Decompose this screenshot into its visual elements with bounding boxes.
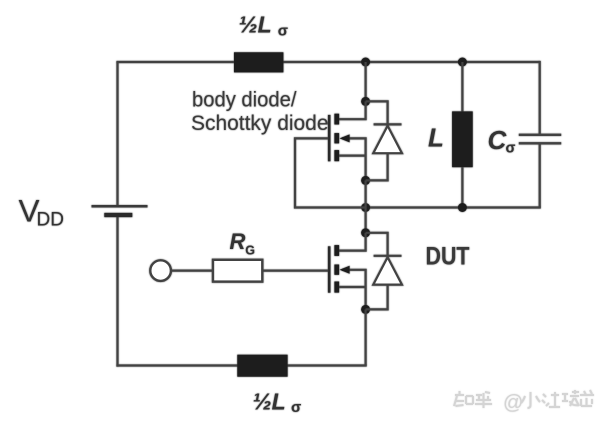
wire trunk top rail to Q1 drain (365, 62, 367, 101)
wire left vertical (battery- to bottom rail) (116, 216, 118, 367)
wire left vertical (VDD+ to top rail) (116, 62, 118, 206)
label half-L-sigma bottom (253, 389, 302, 417)
svg-text:DD: DD (37, 210, 64, 231)
wire trunk Q2 source to bottom rail (365, 309, 367, 365)
svg-text:R: R (230, 229, 246, 254)
wire trunk Q1 source to switch node to Q2 drain (365, 180, 367, 232)
wire top rail (116, 61, 539, 63)
label C-sigma (488, 125, 516, 156)
label body diode / Schottky diode (191, 89, 329, 136)
node dot Q2 source (361, 305, 370, 314)
svg-text:Schottky diode: Schottky diode (191, 112, 329, 135)
wire mid rail (switch node to right vertical) (366, 206, 541, 208)
inductor half-L-sigma top (234, 52, 283, 72)
wire L branch lower (461, 167, 463, 207)
label half-L-sigma top (239, 12, 289, 40)
node dot top rail / L branch (458, 58, 467, 67)
transistor Q2 (DUT MOSFET) (329, 233, 365, 310)
node dot Q2 drain (361, 228, 370, 237)
svg-text:σ: σ (291, 399, 301, 416)
wire RG to Q2 gate (262, 270, 328, 272)
wire Q1 gate-source tie (295, 138, 366, 207)
svg-text:σ: σ (506, 140, 516, 156)
svg-text:G: G (245, 244, 255, 258)
diode D2 (DUT body diode) (366, 233, 402, 310)
capacitor C-sigma (519, 135, 561, 144)
wire bottom rail (116, 364, 366, 366)
node dot switch node (361, 203, 370, 212)
watermark zhihu @xiaojiangtanxin (454, 390, 594, 408)
svg-text:DUT: DUT (426, 243, 470, 271)
inductor half-L-sigma bottom (237, 355, 287, 377)
transistor Q1 (high-side MOSFET) (329, 101, 365, 180)
svg-text:½L: ½L (253, 389, 286, 415)
source terminal circle (150, 260, 171, 281)
wire L branch upper (461, 62, 463, 111)
svg-text:C: C (488, 125, 508, 155)
label VDD (19, 193, 64, 231)
svg-text:@: @ (503, 392, 523, 414)
node dot Q1 source (361, 176, 370, 185)
wire terminal to RG (171, 270, 213, 272)
svg-text:½L: ½L (239, 12, 272, 38)
node dot mid rail / L branch (458, 203, 467, 212)
wire right vertical lower (capacitor to mid rail) (539, 143, 541, 207)
label RG (230, 229, 256, 257)
diode D1 (antiparallel body/Schottky diode) (366, 101, 402, 180)
wire right vertical upper (to capacitor) (539, 61, 541, 135)
battery VDD short plate (104, 213, 132, 217)
svg-text:body diode/: body diode/ (192, 89, 297, 112)
node dot top rail / trunk (361, 58, 370, 67)
svg-text:L: L (428, 122, 444, 152)
battery VDD long plate (92, 205, 148, 208)
inductor L (452, 111, 473, 167)
svg-text:σ: σ (278, 22, 288, 39)
resistor RG (213, 260, 262, 282)
node dot Q1 drain (361, 97, 370, 106)
